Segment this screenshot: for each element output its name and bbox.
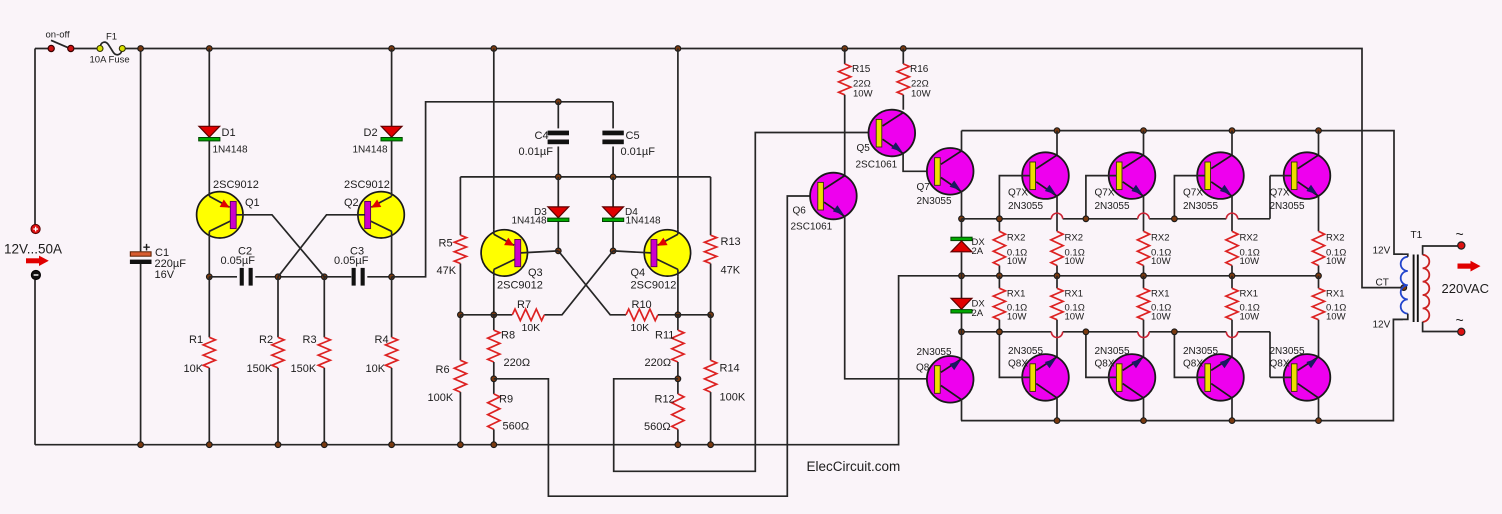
transistor Q1 bbox=[197, 192, 243, 238]
junction bbox=[1054, 128, 1060, 134]
wire: Q7X4 base to rail2 corner bbox=[1270, 175, 1291, 177]
wire: R5 to Q3 emitter bbox=[460, 314, 493, 316]
wire: Q2 base to R2/C2 junction bbox=[278, 215, 365, 277]
diode D4 bbox=[603, 207, 624, 222]
wire hop bbox=[1226, 213, 1237, 219]
svg-text:100K: 100K bbox=[720, 392, 746, 404]
junction bbox=[458, 312, 464, 318]
resistor R14 bbox=[705, 360, 717, 392]
svg-text:C5: C5 bbox=[626, 130, 640, 142]
wire: R8 top bbox=[493, 315, 495, 330]
wire: battery+ to switch bbox=[35, 48, 51, 50]
svg-text:R1: R1 bbox=[189, 334, 203, 346]
wire: RX1_4 to Q8X4 collector bbox=[1318, 320, 1320, 358]
svg-text:Q8X: Q8X bbox=[1095, 359, 1115, 370]
resistor RX2_2 bbox=[1137, 231, 1149, 265]
wire: RX2a to rail3 bbox=[998, 266, 1000, 276]
wire: top bus to D2 bbox=[391, 49, 393, 127]
wire: switch to fuse bbox=[74, 48, 97, 50]
svg-text:Q7X: Q7X bbox=[1008, 188, 1028, 199]
wire: primary top lead bbox=[1394, 254, 1408, 257]
svg-text:560Ω: 560Ω bbox=[644, 421, 671, 433]
wire: DX2 to rail4 bbox=[961, 314, 963, 332]
junction bbox=[138, 442, 144, 448]
svg-text:1N4148: 1N4148 bbox=[626, 216, 661, 227]
wire: Q8X3 emitter to bottom rail bbox=[1231, 398, 1233, 421]
resistor RX1_3 bbox=[1226, 288, 1238, 319]
svg-text:Q7X: Q7X bbox=[1270, 188, 1290, 199]
wire: R10 to Q4 emitter bbox=[658, 314, 678, 316]
junction bbox=[555, 248, 561, 254]
wire: rail1 to Q7X1 collector bbox=[1056, 131, 1058, 156]
wire: D4 to Q4 base junction bbox=[612, 222, 614, 251]
wire: Q2 junction to C4/C5 top line bbox=[392, 102, 613, 277]
svg-text:220Ω: 220Ω bbox=[645, 357, 672, 369]
wire: R5 bottom bbox=[459, 264, 461, 315]
svg-text:16V: 16V bbox=[155, 269, 175, 281]
junction bbox=[491, 376, 497, 382]
wire: rail3 to RX1_1 bbox=[1056, 276, 1058, 289]
wire: top supply bus to transformer CT bbox=[125, 49, 1400, 288]
wire: R5 top bbox=[459, 177, 461, 235]
junction bbox=[1172, 329, 1178, 335]
svg-text:10W: 10W bbox=[1151, 312, 1171, 323]
svg-text:2A: 2A bbox=[972, 308, 984, 319]
wire: D3 junction diagonal to R10 bbox=[558, 251, 626, 315]
wire: R2 bottom bbox=[277, 368, 279, 445]
junction bbox=[206, 442, 212, 448]
resistor R5 bbox=[454, 235, 466, 263]
wire: Q3 emitter down bbox=[493, 276, 495, 315]
junction bbox=[610, 248, 616, 254]
wire: R6 bottom bbox=[459, 392, 461, 445]
junction bbox=[997, 273, 1003, 279]
wire: rail4 end down to Q8X4 base bbox=[1269, 332, 1271, 378]
wire: rail3 to RX1a bbox=[998, 276, 1000, 289]
resistor R2 bbox=[272, 337, 284, 368]
wire: Q8X3 base to rail4 bbox=[1174, 332, 1204, 378]
svg-text:0.05µF: 0.05µF bbox=[221, 255, 256, 267]
transistor Q8X2 bbox=[1109, 354, 1156, 401]
battery input arrow bbox=[26, 256, 49, 266]
wire: rail3 to RX1_4 bbox=[1318, 276, 1320, 289]
wire: Q8X4 emitter to bottom rail bbox=[1318, 398, 1320, 421]
wire: bias line R5 to R13 bbox=[460, 176, 710, 178]
svg-text:10K: 10K bbox=[366, 363, 386, 375]
wire: R13 bottom bbox=[710, 264, 712, 315]
svg-text:1N4148: 1N4148 bbox=[512, 216, 547, 227]
wire hop bbox=[1226, 332, 1237, 338]
wire: primary bottom lead bbox=[1394, 314, 1408, 320]
svg-text:10K: 10K bbox=[631, 322, 650, 334]
junction bbox=[1141, 418, 1147, 424]
resistor R7 bbox=[512, 309, 544, 321]
wire: R14 top bbox=[710, 315, 712, 361]
svg-text:0.01µF: 0.01µF bbox=[621, 146, 656, 158]
svg-text:0.01µF: 0.01µF bbox=[519, 146, 554, 158]
resistor RX2_4 bbox=[1312, 231, 1324, 265]
svg-text:2N3055: 2N3055 bbox=[1270, 346, 1305, 357]
wire: Q3 base to D3 junction bbox=[521, 251, 559, 253]
svg-text:RX2: RX2 bbox=[1240, 233, 1258, 244]
wire: C5 top lead bbox=[612, 102, 614, 129]
junction bbox=[997, 329, 1003, 335]
wire: C4 bottom lead bbox=[557, 147, 559, 177]
wire: C2 right to R3 junction bbox=[255, 276, 324, 278]
svg-text:R9: R9 bbox=[499, 394, 513, 406]
junction bbox=[138, 46, 144, 52]
junction bbox=[1172, 216, 1178, 222]
svg-text:RX1: RX1 bbox=[1240, 289, 1258, 300]
junction bbox=[675, 442, 681, 448]
resistor R12 bbox=[672, 394, 684, 430]
wire: Q3 output to Q6 base bbox=[494, 196, 819, 496]
wire: R1 to ground bus bbox=[208, 368, 210, 445]
diode DX1 bbox=[951, 237, 972, 252]
svg-text:R6: R6 bbox=[436, 364, 450, 376]
capacitor C4 bbox=[548, 131, 569, 145]
wire: RX1_3 to Q8X3 collector bbox=[1231, 320, 1233, 358]
wire: Q8X2 emitter to bottom rail bbox=[1143, 398, 1145, 421]
svg-text:Q6: Q6 bbox=[793, 206, 807, 217]
wire: rail1 to Q7X2 collector bbox=[1143, 131, 1145, 156]
wire: Q7X2 emitter to RX2 bbox=[1143, 196, 1145, 232]
svg-text:~: ~ bbox=[1456, 226, 1464, 242]
junction bbox=[959, 329, 965, 335]
svg-text:10W: 10W bbox=[1326, 312, 1346, 323]
junction bbox=[1054, 273, 1060, 279]
junction bbox=[997, 216, 1003, 222]
wire: RX2_4 to rail3 bbox=[1318, 266, 1320, 276]
junction bbox=[275, 442, 281, 448]
junction bbox=[675, 376, 681, 382]
svg-text:2N3055: 2N3055 bbox=[1183, 346, 1218, 357]
junction bbox=[900, 46, 906, 52]
wire: base drive rail 2 bbox=[1063, 218, 1138, 220]
svg-text:2N3055: 2N3055 bbox=[1095, 201, 1130, 212]
resistor R3 bbox=[318, 337, 330, 368]
junction bbox=[675, 46, 681, 52]
wire: R4 bottom bbox=[391, 368, 393, 445]
transistor Q7X4 bbox=[1284, 152, 1331, 199]
resistor RX2a bbox=[993, 231, 1005, 265]
wire: emitter rail 3 bbox=[962, 275, 1319, 277]
junction bbox=[997, 216, 1003, 222]
wire: rail3 to DX2 bbox=[961, 276, 963, 299]
resistor RX1_1 bbox=[1051, 288, 1063, 319]
wire: R15 to Q6 collector bbox=[844, 95, 846, 176]
svg-text:10K: 10K bbox=[184, 363, 204, 375]
svg-text:Q8: Q8 bbox=[916, 363, 930, 374]
resistor R13 bbox=[705, 235, 717, 263]
wire: Q4 output to Q5 base bbox=[614, 133, 877, 472]
svg-text:10W: 10W bbox=[1240, 256, 1260, 267]
wire: RX2_3 to rail3 bbox=[1231, 266, 1233, 276]
wire hop bbox=[1138, 213, 1149, 219]
junction bbox=[1316, 273, 1322, 279]
wire: D1 to Q1 bbox=[208, 141, 210, 192]
transistor Q5 bbox=[869, 110, 916, 157]
svg-text:RX2: RX2 bbox=[1326, 233, 1344, 244]
wire: rail3 to RX1_3 bbox=[1231, 276, 1233, 289]
wire: base drive rail 2 bbox=[962, 218, 1052, 220]
wire: R13 top bbox=[710, 177, 712, 235]
wire: D3 to Q3 base junction bbox=[557, 222, 559, 251]
junction: CT tap bbox=[1401, 285, 1407, 291]
junction bbox=[206, 274, 212, 280]
wire: R9 bottom bbox=[493, 429, 495, 444]
svg-text:10W: 10W bbox=[1151, 256, 1171, 267]
wire: R6 top bbox=[459, 315, 461, 361]
wire: R8 to R9 bbox=[493, 362, 495, 394]
junction bbox=[675, 312, 681, 318]
svg-text:2A: 2A bbox=[972, 246, 984, 257]
svg-text:Q7X: Q7X bbox=[1183, 188, 1203, 199]
transistor Q7 bbox=[927, 148, 974, 195]
wire: Q8X1 emitter to bottom rail bbox=[1056, 398, 1058, 421]
resistor R16 bbox=[897, 64, 909, 95]
svg-text:2SC9012: 2SC9012 bbox=[344, 179, 390, 191]
svg-text:10W: 10W bbox=[1065, 312, 1085, 323]
svg-text:RX1: RX1 bbox=[1007, 289, 1025, 300]
wire: Q7X3 emitter to RX2 bbox=[1231, 196, 1233, 232]
transistor Q8X4 bbox=[1284, 354, 1331, 401]
wire: R12 bottom bbox=[677, 429, 679, 444]
junction bbox=[491, 312, 497, 318]
junction bbox=[389, 46, 395, 52]
wire: Q8X1 base to rail4 bbox=[999, 332, 1029, 378]
transistor Q7X2 bbox=[1109, 152, 1156, 199]
svg-text:10W: 10W bbox=[1240, 312, 1260, 323]
svg-text:Q4: Q4 bbox=[631, 267, 646, 279]
svg-text:R13: R13 bbox=[721, 236, 741, 248]
wire: rail1 to Q7X4 collector bbox=[1318, 131, 1320, 156]
wire: D4 junction diagonal to R7 bbox=[544, 251, 613, 315]
junction bbox=[389, 442, 395, 448]
junction bbox=[1054, 418, 1060, 424]
svg-text:R12: R12 bbox=[655, 394, 675, 406]
resistor R8 bbox=[488, 330, 500, 362]
svg-text:RX1: RX1 bbox=[1065, 289, 1083, 300]
svg-text:+: + bbox=[143, 240, 151, 255]
svg-text:47K: 47K bbox=[437, 265, 457, 277]
wire: secondary top lead bbox=[1423, 246, 1458, 255]
svg-text:Q8X: Q8X bbox=[1008, 359, 1028, 370]
svg-text:R15: R15 bbox=[852, 64, 871, 75]
transistor Q8X3 bbox=[1197, 354, 1244, 401]
svg-text:12V...50A: 12V...50A bbox=[4, 242, 62, 257]
svg-text:R2: R2 bbox=[259, 334, 273, 346]
wire: Q7X4 emitter to RX2 bbox=[1318, 196, 1320, 232]
wire: base drive rail 2 bbox=[1238, 218, 1270, 220]
wire hop bbox=[1138, 332, 1149, 338]
switch on-off bbox=[48, 40, 74, 51]
wire: rail4 to Q8 collector bbox=[961, 332, 963, 359]
resistor R4 bbox=[386, 337, 398, 368]
wire: Q3 emitter to R7 bbox=[494, 314, 513, 316]
wire: RX2_1 to rail3 bbox=[1056, 266, 1058, 276]
wire: C1 top bbox=[140, 49, 142, 252]
svg-text:Q8X: Q8X bbox=[1183, 359, 1203, 370]
transformer T1 secondary bbox=[1423, 255, 1430, 322]
wire: base drive rail 2 bbox=[1149, 218, 1226, 220]
svg-text:1N4148: 1N4148 bbox=[353, 145, 388, 156]
svg-text:10A Fuse: 10A Fuse bbox=[90, 55, 130, 66]
svg-text:R3: R3 bbox=[303, 334, 317, 346]
svg-text:10W: 10W bbox=[1007, 312, 1027, 323]
battery negative terminal bbox=[31, 270, 40, 279]
capacitor C2 bbox=[240, 268, 253, 286]
svg-text:Q7X: Q7X bbox=[1095, 188, 1115, 199]
wire: Q4 emitter down bbox=[677, 276, 679, 315]
svg-text:CT: CT bbox=[1376, 278, 1389, 289]
wire: Q4 base to D4 junction bbox=[613, 251, 651, 253]
junction bbox=[1229, 418, 1235, 424]
diode D2 bbox=[381, 126, 402, 141]
transistor Q7X3 bbox=[1197, 152, 1244, 199]
svg-text:12V: 12V bbox=[1373, 246, 1391, 257]
transformer core bbox=[1414, 255, 1418, 323]
wire: rail3 to RX1_2 bbox=[1143, 276, 1145, 289]
wire: rail1 to Q7X3 collector bbox=[1231, 131, 1233, 156]
junction bbox=[1141, 273, 1147, 279]
wire: C4 top lead bbox=[557, 102, 559, 129]
wire: junction to R4 bbox=[391, 277, 393, 338]
svg-text:2N3055: 2N3055 bbox=[917, 196, 952, 207]
wire: Q1 base to R3/C3 junction bbox=[236, 215, 324, 277]
junction bbox=[1083, 216, 1089, 222]
wire: RX1a to rail4 bbox=[998, 320, 1000, 332]
svg-text:D2: D2 bbox=[364, 127, 378, 139]
diode DX2 bbox=[951, 298, 972, 313]
svg-text:2N3055: 2N3055 bbox=[1095, 346, 1130, 357]
svg-text:Q2: Q2 bbox=[344, 197, 359, 209]
output terminal bottom bbox=[1458, 328, 1465, 335]
junction bbox=[997, 329, 1003, 335]
wire: Q7X1 emitter to RX2 bbox=[1056, 196, 1058, 232]
junction bbox=[321, 274, 327, 280]
junction bbox=[1229, 273, 1235, 279]
svg-text:2SC9012: 2SC9012 bbox=[213, 179, 259, 191]
diode D3 bbox=[548, 207, 569, 222]
svg-text:100K: 100K bbox=[428, 392, 454, 404]
svg-text:R11: R11 bbox=[655, 330, 674, 342]
junction bbox=[206, 46, 212, 52]
wire: rail to Q7 collector bbox=[961, 131, 963, 152]
svg-text:2N3055: 2N3055 bbox=[1270, 201, 1305, 212]
resistor R10 bbox=[626, 309, 658, 321]
svg-text:C4: C4 bbox=[535, 130, 549, 142]
wire: Q4 emitter to R13 bbox=[678, 314, 711, 316]
wire: collector rail Q7 bank to transformer top tap bbox=[962, 131, 1403, 255]
resistor R1 bbox=[203, 337, 215, 368]
wire: Q8X2 base to rail4 bbox=[1086, 332, 1116, 378]
wire: Q6 emitter to Q8 base bbox=[845, 216, 935, 378]
wire: junction to R1 bbox=[208, 277, 210, 338]
resistor R11 bbox=[672, 330, 684, 362]
junction bbox=[321, 442, 327, 448]
wire: base drive rail 4 bbox=[1238, 331, 1270, 333]
transistor Q4 bbox=[644, 230, 690, 276]
wire: D2 to Q2 bbox=[391, 141, 393, 192]
wire: R3 bottom bbox=[323, 368, 325, 445]
junction bbox=[610, 174, 616, 180]
svg-text:2N3055: 2N3055 bbox=[917, 347, 952, 358]
transistor Q6 bbox=[810, 173, 857, 220]
svg-text:10W: 10W bbox=[911, 89, 931, 100]
junction bbox=[389, 274, 395, 280]
transistor Q2 bbox=[358, 192, 404, 238]
junction bbox=[491, 46, 497, 52]
capacitor C3 bbox=[352, 268, 365, 286]
output terminal top bbox=[1458, 242, 1465, 249]
wire: top bus to Q4 bbox=[677, 49, 679, 230]
wire: Q7X3 base to rail2 bbox=[1174, 176, 1204, 219]
svg-text:220Ω: 220Ω bbox=[504, 357, 531, 369]
junction bbox=[275, 274, 281, 280]
junction bbox=[491, 442, 497, 448]
diode D1 bbox=[199, 126, 220, 141]
wire: RX1_1 to Q8X1 collector bbox=[1056, 320, 1058, 358]
wire: R16 top bbox=[902, 49, 904, 64]
wire: Q8X4 base to rail4 corner bbox=[1270, 376, 1291, 378]
wire: R11 to R12 bbox=[677, 362, 679, 394]
junction bbox=[959, 216, 965, 222]
svg-text:150K: 150K bbox=[247, 363, 273, 375]
svg-text:220VAC: 220VAC bbox=[1442, 281, 1489, 296]
svg-text:Q5: Q5 bbox=[857, 143, 871, 154]
wire: collector rail Q8 bank to transformer bottom tap bbox=[961, 319, 1403, 420]
wire: RX2_2 to rail3 bbox=[1143, 266, 1145, 276]
wire: Q5 emitter to Q7 base bbox=[903, 154, 935, 172]
wire hop bbox=[1051, 332, 1062, 338]
junction bbox=[555, 174, 561, 180]
wire: Q7X1 base to rail2 bbox=[999, 176, 1029, 219]
resistor RX1_4 bbox=[1312, 288, 1324, 319]
resistor RX1_2 bbox=[1137, 288, 1149, 319]
wire: RX1_2 to Q8X2 collector bbox=[1143, 320, 1145, 358]
svg-text:~: ~ bbox=[1456, 312, 1464, 328]
svg-text:RX2: RX2 bbox=[1065, 233, 1083, 244]
wire: C5 bottom lead bbox=[612, 147, 614, 177]
svg-text:2N3055: 2N3055 bbox=[1008, 201, 1043, 212]
battery positive terminal bbox=[31, 224, 40, 233]
wire: R16 to Q5 collector bbox=[902, 95, 904, 110]
transformer T1 primary bbox=[1401, 257, 1408, 314]
svg-text:Q8X: Q8X bbox=[1270, 359, 1290, 370]
svg-text:10W: 10W bbox=[1065, 256, 1085, 267]
wire: line to D4 bbox=[612, 177, 614, 207]
wire: Q7X2 base to rail2 bbox=[1086, 176, 1116, 219]
junction bbox=[1316, 418, 1322, 424]
wire: battery - lead bbox=[34, 280, 36, 445]
wire: battery + lead bbox=[34, 49, 36, 225]
svg-text:ElecCircuit.com: ElecCircuit.com bbox=[807, 459, 901, 474]
junction bbox=[842, 46, 848, 52]
svg-text:R5: R5 bbox=[439, 238, 453, 250]
resistor R9 bbox=[488, 394, 500, 430]
junction bbox=[1141, 128, 1147, 134]
svg-text:2SC9012: 2SC9012 bbox=[497, 280, 543, 292]
wire: Q7 emitter to base rail bbox=[961, 192, 963, 219]
junction bbox=[1229, 128, 1235, 134]
svg-text:2SC1061: 2SC1061 bbox=[791, 222, 833, 233]
junction bbox=[708, 312, 714, 318]
svg-text:1N4148: 1N4148 bbox=[213, 145, 248, 156]
resistor R15 bbox=[839, 64, 851, 95]
svg-text:T1: T1 bbox=[1411, 230, 1423, 241]
svg-text:0.05µF: 0.05µF bbox=[334, 255, 369, 267]
